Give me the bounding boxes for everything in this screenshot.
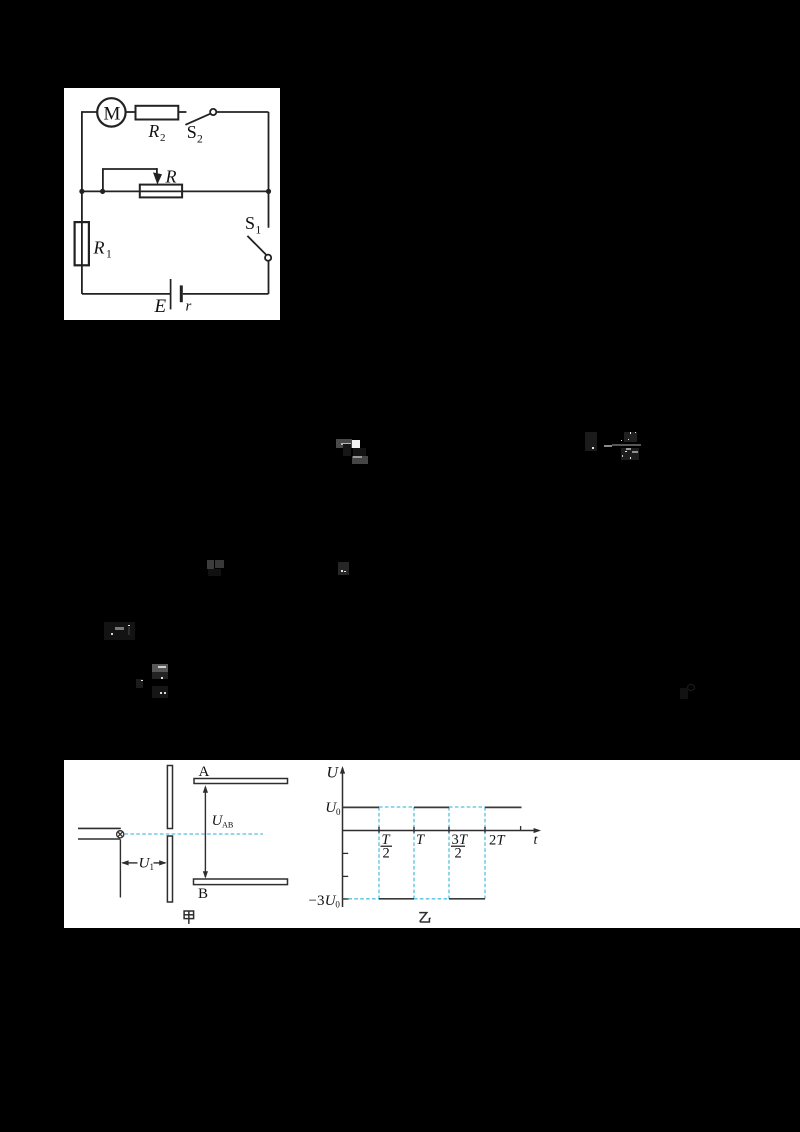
node C right junction dot [266, 189, 271, 194]
svg-text:r: r [186, 299, 192, 315]
wire top left [81, 111, 97, 113]
svg-text:R: R [148, 121, 160, 141]
svg-text:2: 2 [489, 833, 496, 849]
dashed guide verticals [343, 807, 486, 899]
U1 dimension arrow left [121, 860, 137, 865]
wire R2 to switch S2 [178, 111, 186, 113]
switch S2 lever [185, 114, 210, 125]
electron gun barrel top [78, 827, 121, 829]
label jia (Chinese) [184, 911, 194, 924]
U1 dimension arrow right [154, 860, 167, 865]
electron source circle-x [117, 831, 124, 838]
svg-text:U: U [327, 765, 340, 782]
figure panel 2: deflection figure and U-t graph background [64, 760, 800, 928]
svg-text:2: 2 [160, 132, 166, 144]
UAB dimension arrow [203, 785, 208, 878]
svg-text:E: E [154, 296, 167, 317]
rheostat wiper horizontal [102, 168, 157, 170]
equation fragment g [687, 684, 695, 691]
figure panel 1: circuit diagram background [64, 88, 280, 320]
plate B [194, 879, 288, 885]
switch S1 contact circle [265, 255, 271, 261]
battery plate long E [170, 279, 172, 309]
svg-text:T: T [416, 832, 425, 848]
svg-text:2: 2 [383, 846, 390, 862]
svg-text:B: B [198, 886, 208, 902]
svg-text:−3: −3 [309, 893, 325, 909]
rheostat R body [140, 185, 182, 198]
label yi (Chinese) [419, 913, 430, 922]
equation fragment b [585, 432, 597, 451]
svg-text:0: 0 [336, 807, 341, 817]
svg-text:S: S [245, 213, 255, 233]
rheostat wiper arrowhead [153, 172, 162, 184]
plate A [194, 779, 288, 784]
svg-text:M: M [104, 104, 121, 125]
equation fragment a [336, 439, 352, 448]
equation fragment c [207, 560, 214, 570]
battery plate short r [180, 285, 183, 302]
node B wiper junction dot [100, 189, 105, 194]
switch S1 lever [247, 236, 266, 255]
beam axis dashed line [125, 833, 264, 835]
svg-text:A: A [199, 764, 210, 780]
wire left vertical [81, 112, 83, 294]
wire bottom right [183, 293, 269, 295]
svg-text:1: 1 [106, 249, 112, 261]
svg-text:T: T [497, 833, 506, 849]
svg-text:t: t [534, 833, 539, 848]
rheostat wiper stub [156, 168, 158, 174]
U axis vertical [340, 766, 345, 907]
svg-text:1: 1 [256, 225, 262, 237]
svg-text:2: 2 [455, 846, 462, 862]
svg-text:S: S [187, 122, 197, 142]
equation fragment e [104, 622, 135, 640]
motor U1 circle [97, 98, 125, 126]
resistor R2 [136, 106, 179, 120]
svg-text:2: 2 [197, 134, 203, 146]
electron gun barrel bottom [78, 838, 120, 840]
U axis minor ticks [343, 826, 521, 899]
dashed guide top U0 segments [379, 806, 414, 808]
wire bottom left [82, 293, 171, 295]
wire right vertical lower [268, 261, 270, 294]
t axis horizontal [343, 828, 542, 833]
wire S2 to right [216, 111, 268, 113]
switch S2 contact circle [210, 109, 216, 115]
svg-text:AB: AB [222, 821, 234, 830]
waveform high segments [343, 806, 522, 808]
equation fragment d [338, 562, 349, 575]
wire motor to R2 [126, 111, 136, 113]
svg-text:0: 0 [335, 899, 340, 909]
dashed guide bottom -3U0 segments [343, 898, 380, 900]
rheostat wiper vertical [102, 169, 104, 191]
svg-text:R: R [165, 167, 177, 187]
svg-text:R: R [93, 238, 105, 258]
slit plate lower [167, 836, 172, 902]
wire middle horizontal [82, 190, 269, 192]
slit plate upper [167, 766, 172, 829]
node A left junction dot [79, 189, 84, 194]
resistor R1 [75, 222, 89, 265]
wire right vertical upper [268, 112, 270, 228]
t axis ticks at T/2 T 3T/2 2T [379, 827, 485, 833]
accelerating wire vertical [119, 839, 121, 897]
svg-text:1: 1 [150, 862, 155, 872]
waveform low segments [379, 898, 485, 900]
equation fragment f [152, 664, 168, 672]
